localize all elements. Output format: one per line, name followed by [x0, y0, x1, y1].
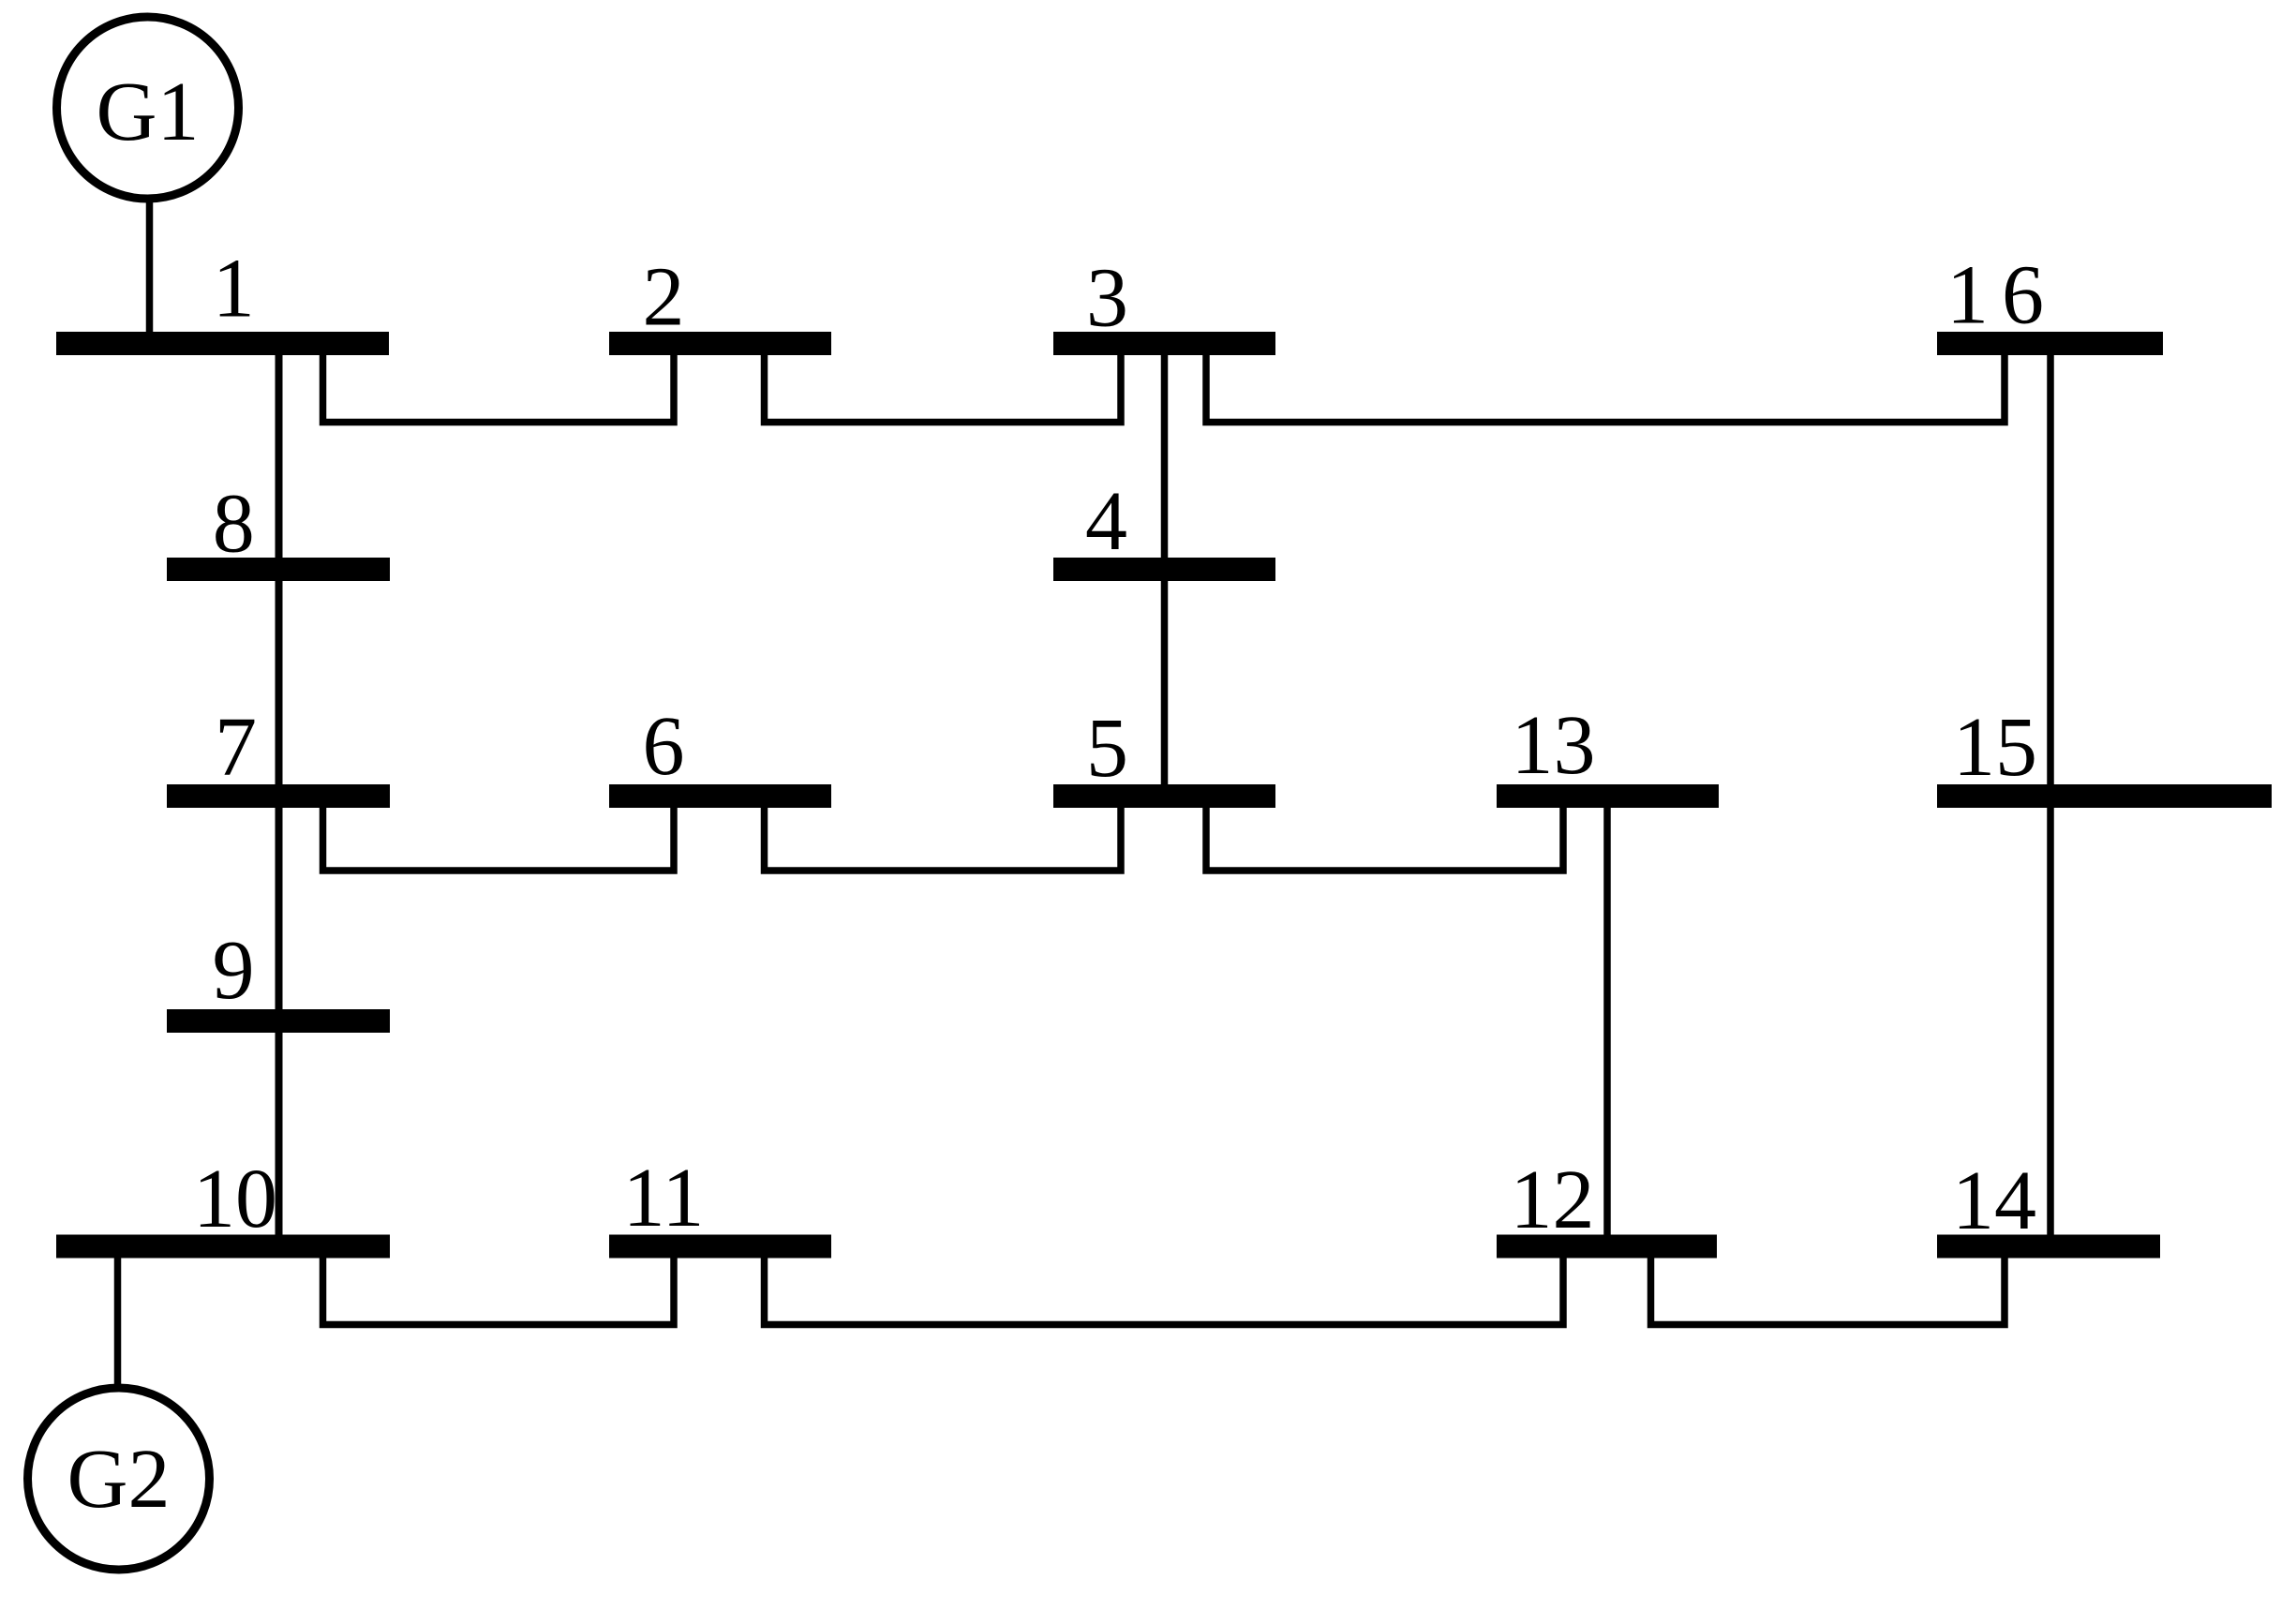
bus 6 bar	[609, 784, 831, 808]
wire bus12 to bus14 jumper	[1651, 1256, 2005, 1325]
bus 11 bar	[609, 1235, 831, 1259]
bus 7 bar	[167, 784, 390, 808]
bus 15 bar	[1937, 784, 2272, 808]
svg-text:13: 13	[1512, 699, 1596, 792]
svg-text:5: 5	[1086, 702, 1128, 795]
wire G1 to bus 1	[146, 199, 154, 335]
wire bus1 to bus2 jumper	[323, 353, 675, 423]
svg-text:15: 15	[1953, 701, 2037, 794]
svg-text:7: 7	[215, 701, 257, 794]
bus 14 bar	[1937, 1235, 2160, 1259]
svg-text:11: 11	[623, 1152, 705, 1244]
wire bus6 to bus5 jumper	[765, 805, 1122, 871]
bus 3 bar	[1053, 332, 1275, 355]
svg-text:10: 10	[193, 1153, 277, 1245]
svg-text:16: 16	[1946, 249, 2057, 342]
svg-text:1: 1	[213, 243, 255, 335]
bus 10 bar	[56, 1235, 390, 1259]
wire bus7 to bus6 jumper	[323, 805, 675, 871]
bus 16 bar	[1937, 332, 2163, 355]
wire bus2 to bus3 jumper	[765, 353, 1122, 423]
wire bus13-bus12 vertical	[1603, 806, 1611, 1237]
wire bus1-bus8-bus7-bus9-bus10 vertical chain	[276, 353, 283, 1237]
svg-text:4: 4	[1085, 475, 1127, 568]
bus 4 bar	[1053, 558, 1275, 581]
wire bus11 to bus12 jumper	[765, 1256, 1564, 1325]
wire bus5 to bus13 jumper	[1206, 805, 1563, 871]
svg-text:3: 3	[1086, 252, 1128, 345]
svg-text:G2: G2	[67, 1433, 171, 1526]
svg-text:9: 9	[213, 924, 255, 1017]
svg-text:12: 12	[1511, 1154, 1595, 1246]
bus 13 bar	[1497, 784, 1719, 808]
svg-text:6: 6	[643, 700, 685, 793]
svg-text:8: 8	[213, 478, 255, 571]
wire G2 to bus 10	[114, 1256, 122, 1388]
svg-text:14: 14	[1952, 1155, 2036, 1247]
bus 1 bar	[56, 332, 389, 355]
wire bus3 to bus16 jumper	[1206, 353, 2005, 423]
svg-text:G1: G1	[97, 66, 200, 158]
wire bus10 to bus11 jumper	[323, 1256, 675, 1325]
wire bus16-bus15-bus14 vertical	[2047, 353, 2054, 1237]
bus 8 bar	[167, 558, 390, 581]
svg-text:2: 2	[643, 251, 685, 344]
bus 2 bar	[609, 332, 831, 355]
bus 9 bar	[167, 1009, 390, 1033]
wire bus3-bus4-bus5 vertical	[1161, 353, 1169, 789]
bus 12 bar	[1497, 1235, 1717, 1259]
bus 5 bar	[1053, 784, 1275, 808]
generator G2	[28, 1388, 210, 1570]
generator G1	[57, 17, 239, 199]
